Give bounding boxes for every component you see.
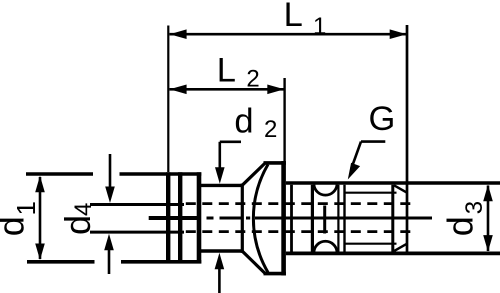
thread end chamfer bottom (394, 244, 407, 251)
d2 cylinder bottom line (201, 249, 242, 252)
svg-text:L: L (217, 52, 236, 90)
thread start line a (337, 185, 339, 252)
thread minor diameter bottom (345, 243, 397, 245)
d4 bore bottom line (90, 231, 184, 234)
svg-text:d: d (234, 103, 253, 141)
L1 left arrowhead (170, 29, 187, 39)
L2 right extension line (283, 78, 285, 161)
d1 top arrowhead (35, 176, 45, 193)
L1 dimension line (170, 33, 407, 36)
head bottom edge (264, 272, 286, 276)
centerline right long segment (255, 217, 432, 220)
L1 L2 left extension line (167, 26, 169, 173)
flange right face (197, 172, 202, 263)
G leader slant (352, 142, 362, 168)
neck line before groove (311, 185, 314, 252)
groove center bar (323, 206, 326, 234)
groove arc bottom (314, 241, 337, 252)
d1 dimension line vertical (39, 177, 42, 259)
L2 left arrowhead (170, 85, 187, 95)
head chamfer bottom (242, 251, 265, 273)
hidden bore dashed line top (186, 202, 412, 205)
d1 bottom arrowhead (35, 244, 45, 261)
head chamfer top (242, 163, 265, 185)
svg-text:2: 2 (264, 116, 277, 143)
d3 dimension line vertical (487, 186, 490, 252)
svg-text:2: 2 (246, 66, 259, 93)
d2 end face (241, 184, 244, 253)
d2 leader vertical (219, 142, 222, 170)
head spherical arc (253, 164, 268, 272)
svg-text:1: 1 (313, 13, 326, 40)
G leader horizontal (361, 140, 385, 143)
head right face (281, 161, 286, 276)
centerline dash 1 (207, 217, 214, 220)
head top edge (264, 161, 286, 165)
thread end chamfer top (394, 185, 407, 192)
hidden bore dashed line bottom (186, 230, 412, 233)
svg-text:L: L (284, 0, 303, 34)
L2 dimension line (170, 88, 285, 91)
d2 bottom arrow shaft (218, 267, 221, 293)
thread start line b (343, 185, 345, 252)
d3 bottom arrowhead (483, 235, 493, 252)
holder body top line left segment (26, 172, 93, 175)
L1 right extension / thread end face (406, 25, 409, 253)
centerline dash 2 (220, 217, 243, 220)
d4 top arrow shaft (109, 154, 112, 188)
svg-text:1: 1 (11, 201, 41, 215)
svg-text:4: 4 (70, 203, 97, 216)
d2 cylinder top line (201, 184, 242, 187)
holder body bottom line left segment (27, 260, 95, 264)
holder body top line right segment (120, 172, 202, 175)
flange groove line 1 (166, 172, 170, 263)
groove arc top (314, 185, 337, 196)
d4 top arrowhead (105, 187, 115, 204)
d4 bore top line (90, 203, 184, 206)
flange groove line 2 (178, 172, 182, 263)
shaft bottom line (286, 251, 500, 255)
ring line after head (290, 185, 293, 252)
d4 bottom arrow shaft (108, 249, 111, 274)
d2 leader horizontal (220, 141, 241, 144)
holder body bottom line right segment (121, 260, 201, 264)
d3 top arrowhead (483, 185, 493, 202)
svg-text:d: d (439, 216, 480, 236)
L1 right arrowhead (390, 29, 407, 39)
thread end line (391, 185, 394, 252)
svg-text:d: d (57, 215, 98, 235)
svg-text:G: G (369, 100, 396, 138)
centerline thick segment (149, 216, 199, 220)
thread minor diameter top (345, 192, 397, 194)
G leader arrowhead (348, 163, 360, 180)
d2 top arrowhead (215, 167, 225, 184)
shaft top line (286, 181, 500, 185)
d4 bottom arrowhead (104, 234, 114, 251)
svg-text:3: 3 (461, 201, 488, 214)
L2 right arrowhead (267, 85, 284, 95)
svg-text:d: d (0, 216, 32, 236)
d2 bottom arrowhead (215, 253, 225, 269)
centerline dash 3 (246, 217, 250, 220)
